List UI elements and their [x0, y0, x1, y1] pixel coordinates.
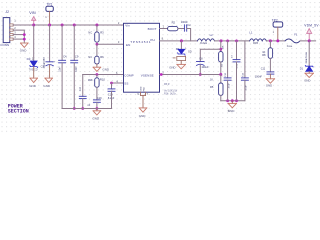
ground G6 (IC): [139, 108, 147, 112]
svg-text:L2: L2: [210, 33, 214, 37]
wire C13 to output bus: [244, 80, 246, 101]
svg-text:39K: 39K: [88, 78, 93, 82]
svg-text:GND: GND: [266, 84, 272, 88]
svg-text:R10: R10: [100, 78, 105, 82]
resistor R2: [168, 26, 178, 30]
node C8 bottom junction: [199, 73, 202, 76]
diode D2 (SD): [178, 49, 185, 55]
title POWER SECTION: [8, 103, 29, 114]
node R8 junction: [269, 39, 272, 42]
wire EN: [97, 43, 124, 45]
capacitor C5 (polarized): [46, 62, 53, 66]
svg-text:GND: GND: [139, 114, 147, 118]
wire R5 top: [220, 75, 222, 84]
note text block: [164, 83, 178, 95]
wire D2 stem: [180, 41, 182, 49]
node C12 top junction: [226, 40, 229, 43]
node C7 bottom junction: [235, 99, 238, 102]
svg-text:GND: GND: [29, 84, 37, 88]
svg-text:L1: L1: [249, 30, 253, 34]
wire C7 drop: [236, 41, 238, 60]
wire C9 drop: [73, 25, 75, 60]
node GND stem junction: [231, 99, 234, 102]
node R3 junction: [95, 24, 98, 27]
node COMP-R10 junction: [96, 73, 99, 76]
node C8 branch junction: [219, 48, 222, 51]
svg-text:D3: D3: [27, 57, 31, 61]
capacitor C13: [241, 78, 248, 80]
svg-text:TVS CD: TVS CD: [29, 68, 38, 71]
svg-text:GND: GND: [20, 48, 28, 52]
node VSENSE pin dot: [160, 73, 163, 76]
svg-text:GND: GND: [140, 86, 142, 91]
test point TP1: [46, 6, 53, 11]
wire pin2 staircase: [13, 30, 24, 42]
junction pin4: [23, 38, 26, 41]
inductor L1 (ferrite bead): [250, 39, 267, 41]
wire TP1 stem: [49, 11, 51, 25]
ground G2 (D3): [30, 78, 38, 83]
node VOUT junction: [220, 39, 223, 42]
svg-text:NC: NC: [88, 31, 92, 35]
resistor R5: [219, 83, 223, 95]
svg-text:GND: GND: [102, 67, 110, 71]
svg-text:SD: SD: [188, 50, 192, 54]
inductor L2: [197, 39, 214, 41]
node C19 bottom junction: [96, 107, 99, 110]
wire pin3: [13, 34, 24, 36]
node TP2 junction: [276, 39, 279, 42]
wire D2 to ground: [180, 61, 182, 65]
svg-text:C4: C4: [63, 54, 67, 58]
wire C8 to VSENSE wire: [199, 65, 201, 75]
wire VSENSE: [160, 74, 221, 76]
wire R8 to C11: [269, 58, 271, 72]
wire C9 to bottom bus: [73, 63, 75, 109]
svg-text:F1: F1: [294, 33, 298, 37]
ground G9 (C11): [266, 79, 274, 83]
wire R2 to C2: [178, 28, 184, 30]
wire R5 to output bus: [220, 95, 222, 100]
svg-text:BOOT: BOOT: [148, 27, 157, 31]
wire C11 to ground: [269, 74, 271, 79]
wire C16 to bottom bus: [82, 99, 84, 109]
wire D1 to ground: [308, 71, 310, 73]
node SS junction: [110, 82, 113, 85]
wire C5 to ground: [49, 65, 51, 78]
svg-text:CONN: CONN: [0, 43, 9, 47]
svg-text:SS: SS: [124, 82, 128, 86]
wire C8 branch: [200, 49, 221, 61]
node C4 junction: [61, 24, 64, 27]
svg-text:R14: 1K/1k: R14: 1K/1k: [164, 93, 177, 96]
ground G1 (connector): [21, 43, 29, 47]
ground G5 (bottom bus): [96, 109, 98, 111]
wire C13 drop: [244, 41, 246, 78]
wire R10 top: [96, 75, 98, 78]
svg-text:TPS54531: TPS54531: [130, 40, 151, 44]
wire C7 to output bus: [236, 62, 238, 101]
connector pin numbers: [14, 19, 16, 40]
ground G3 (C5): [45, 78, 53, 83]
wire FRB to fuse: [266, 40, 285, 42]
svg-text:R2: R2: [172, 21, 176, 25]
svg-text:COMP: COMP: [124, 74, 133, 78]
svg-text:1K: 1K: [210, 78, 213, 81]
svg-text:SMAJ5V0A: SMAJ5V0A: [305, 52, 308, 64]
svg-text:R5: R5: [210, 85, 214, 89]
svg-text:GND: GND: [169, 66, 175, 70]
capacitor C18: [108, 89, 115, 91]
resistor R10: [95, 78, 99, 88]
resistor R3: [95, 32, 99, 42]
svg-text:R6: R6: [100, 55, 104, 59]
wire C16 drop: [82, 75, 84, 97]
connector J2 pin boxes: [10, 24, 13, 40]
IC pin numbers: [116, 21, 165, 96]
svg-text:J2: J2: [5, 10, 9, 14]
svg-text:VSENSE: VSENSE: [141, 74, 154, 78]
wire R4 to VSENSE node: [220, 62, 222, 75]
wire TP2 stem: [277, 27, 279, 41]
wire BOOT: [160, 28, 168, 30]
wire D3 drop: [33, 25, 35, 61]
node VDM junction: [308, 39, 311, 42]
ground G4 (R6): [93, 67, 101, 71]
svg-text:NC: NC: [88, 55, 92, 59]
wire D3 to ground: [33, 67, 35, 79]
wire C5 drop: [49, 25, 51, 62]
junction pin3: [23, 33, 26, 36]
ground G7 (D2): [177, 64, 186, 69]
svg-text:100uF: 100uF: [201, 66, 209, 69]
capacitor C4: [59, 60, 66, 63]
stray mark: [228, 110, 230, 112]
wire R3 top: [96, 25, 98, 32]
svg-text:100uF/35V: 100uF/35V: [44, 57, 46, 69]
IC pin names: [124, 24, 156, 86]
svg-text:10nF: 10nF: [59, 66, 62, 72]
capacitor C8 (polarized): [197, 62, 205, 66]
svg-text:47uF: 47uF: [246, 85, 248, 91]
capacitor C2: [184, 25, 186, 31]
resistor R8: [268, 48, 272, 59]
node C7 top junction: [235, 40, 238, 43]
IC ground stubs: [141, 92, 146, 108]
svg-text:C9: C9: [75, 55, 79, 59]
wire C4 drop: [61, 25, 63, 60]
wire output bottom bus: [221, 100, 245, 102]
capacitor C7: [233, 60, 240, 62]
svg-text:VIN: VIN: [29, 11, 36, 15]
capacitor C12: [224, 78, 231, 80]
wire fuse to VDM node: [300, 40, 316, 42]
power arrow VDM_5V: [307, 29, 312, 41]
node D2 junction: [180, 39, 183, 42]
wire C18 top: [111, 83, 113, 89]
svg-text:10K: 10K: [222, 45, 224, 49]
capacitor C11: [267, 72, 274, 74]
svg-text:FRB: FRB: [253, 42, 258, 45]
svg-text:C10: C10: [80, 86, 82, 91]
IC U1 TPS54531 body: [124, 23, 160, 92]
wire C12 to output bus: [227, 80, 229, 101]
wire divider top: [220, 41, 222, 52]
svg-text:GND: GND: [92, 116, 100, 120]
node C9 junction: [73, 24, 76, 27]
wire pin4: [13, 38, 24, 40]
diode D3 (TVS): [30, 61, 38, 68]
wire R6 top: [96, 44, 98, 56]
svg-text:PAD: PAD: [142, 87, 145, 92]
node EN junction: [96, 43, 99, 46]
wire TVS drop: [308, 41, 310, 66]
svg-text:R3: R3: [100, 31, 104, 35]
svg-text:8.2uH: 8.2uH: [200, 41, 207, 45]
svg-text:10nF: 10nF: [75, 66, 78, 72]
wire R10 to C19: [96, 87, 98, 100]
wire R6 to ground: [96, 64, 98, 67]
node divider mid junction: [219, 73, 222, 76]
svg-text:GND: GND: [304, 79, 310, 83]
node C16 bottom junction: [81, 107, 84, 110]
svg-text:100nF: 100nF: [255, 76, 263, 79]
node C9 bottom junction: [73, 107, 76, 110]
wire L2 to FRB: [215, 40, 250, 42]
capacitor C19: [93, 100, 100, 102]
diode D1 (TVS): [305, 65, 313, 71]
resistor R6: [95, 56, 99, 64]
svg-text:SECTION: SECTION: [8, 108, 29, 114]
svg-text:FB R: FB R: [164, 83, 170, 86]
svg-text:R8: R8: [262, 53, 266, 57]
connector J2 body: [3, 18, 10, 43]
node TP1 junction: [48, 24, 51, 27]
wire C12 drop: [227, 41, 229, 78]
wire C18 to bottom bus: [111, 91, 113, 108]
svg-text:C11: C11: [261, 68, 266, 71]
svg-text:Fuse: Fuse: [287, 45, 293, 48]
node C12 bottom junction: [226, 99, 229, 102]
svg-text:GND: GND: [43, 84, 51, 88]
wire R3 to EN node: [96, 42, 98, 44]
wire C2 to PH rail: [187, 29, 191, 41]
D2 package box: [177, 56, 186, 60]
wire SS stub: [112, 82, 124, 84]
svg-text:47uF: 47uF: [228, 83, 230, 89]
fuse F1: [285, 39, 300, 43]
wire pin1 to main VIN bus: [13, 24, 123, 26]
capacitor C9: [71, 60, 78, 63]
wire COMP: [83, 74, 124, 76]
wire bottom bus: [62, 108, 111, 110]
test point TP2: [273, 22, 283, 27]
capacitor C16: [79, 96, 86, 98]
resistor R4: [219, 52, 223, 62]
wire C4 to bottom bus: [61, 63, 63, 109]
wire R8 top: [269, 41, 271, 48]
VIN power arrow: [32, 17, 36, 25]
node VIN junction: [32, 24, 35, 27]
wire PH rail: [160, 40, 198, 42]
ground G8 (output bus): [231, 101, 233, 104]
svg-text:VDM_5V: VDM_5V: [304, 23, 319, 27]
ground G10 (TVS): [305, 73, 313, 77]
wire C19 to bottom bus: [96, 102, 98, 108]
svg-text:Vin: Vin: [125, 24, 130, 28]
